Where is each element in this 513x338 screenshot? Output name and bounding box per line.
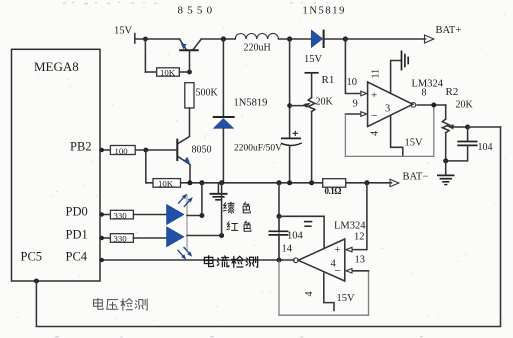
svg-text:20K: 20K (316, 97, 334, 108)
svg-text:BAT−: BAT− (403, 172, 429, 183)
output circle pin 14 (293, 258, 298, 263)
svg-text:15V: 15V (114, 26, 133, 37)
wire: pin14 node to cap and box corner (278, 183, 280, 217)
capacitor C2 104 (467, 127, 469, 141)
R1 wiper arrow from output node (290, 105, 305, 107)
svg-text:104: 104 (287, 231, 304, 242)
svg-text:R2: R2 (446, 86, 459, 98)
svg-text:PB2: PB2 (70, 140, 92, 154)
label 电压检测 (voltage detection) (93, 298, 147, 310)
svg-text:104: 104 (478, 142, 493, 153)
svg-text:15V: 15V (337, 293, 356, 304)
svg-text:9: 9 (353, 99, 358, 110)
svg-text:0.1Ω: 0.1Ω (325, 186, 342, 196)
scan speckles top edge (55, 2, 423, 337)
svg-text:1N5819: 1N5819 (303, 6, 346, 17)
svg-text:BAT+: BAT+ (436, 25, 462, 36)
svg-text:330: 330 (114, 210, 128, 220)
svg-text:10K: 10K (158, 179, 174, 189)
svg-text:R1: R1 (322, 74, 335, 86)
BAT- ground rail (146, 182, 323, 184)
wire: output to R2 (417, 104, 446, 106)
svg-text:8550: 8550 (178, 5, 217, 17)
svg-text:PD0: PD0 (66, 205, 88, 219)
rail junction nodes (187, 180, 192, 185)
pin 4 to 15V (391, 115, 403, 155)
LED D3 green (167, 204, 185, 224)
svg-text:PD1: PD1 (66, 228, 88, 242)
svg-text:2200uF/50V: 2200uF/50V (234, 143, 282, 153)
node above freewheeling diode (221, 36, 226, 41)
PC4 wire (current sense) (100, 259, 294, 261)
node on base wire (143, 148, 148, 153)
resistor 10K (base pull-up) (145, 71, 156, 73)
svg-text:20K: 20K (456, 100, 474, 111)
svg-text:12: 12 (354, 232, 365, 243)
svg-text:3: 3 (385, 104, 390, 115)
LED D3 emission arrows (178, 194, 193, 207)
node: BAT+ branch to op-amp pin10 (343, 36, 348, 41)
capacitor C1 2200uF/50V (289, 39, 291, 138)
op-amp U1D LM324 box (gray) (279, 216, 369, 315)
ground (below R2) (445, 161, 447, 175)
ground (op-amp1 pin 11, rotated) (401, 51, 403, 71)
node: base of 8550 (187, 70, 192, 75)
svg-text:4: 4 (331, 259, 337, 270)
svg-text:+: + (335, 244, 341, 256)
svg-text:10: 10 (347, 77, 358, 88)
node above ground (443, 158, 448, 163)
svg-text:14: 14 (282, 244, 293, 255)
label 绿色 (green) (223, 202, 250, 213)
wire: collector to inductor (201, 38, 235, 40)
pin 11 to ground (391, 61, 401, 94)
wire: inductor to diode (279, 38, 312, 40)
ground (center, below rail) (217, 183, 219, 193)
svg-text:15V: 15V (405, 138, 424, 149)
wire: PC5 to bottom rail (34, 279, 39, 284)
emitter arrow of 8550 (blue) (181, 44, 186, 49)
wire: 15V to transistor emitter (135, 38, 180, 40)
pin 12 wire from BAT- rail (352, 183, 367, 250)
resistor 10K (on rail) (153, 179, 181, 188)
resistor 500K (185, 83, 194, 108)
label 红色 (red) (227, 221, 251, 231)
svg-text:PC5: PC5 (21, 250, 43, 264)
wire: diode to BAT+ (324, 38, 426, 40)
output circle pin 8 (411, 103, 416, 108)
LED cathode line (gray) (186, 195, 188, 252)
svg-text:100: 100 (115, 146, 129, 156)
MEGA8 IC box U2 (12, 49, 101, 281)
LED D4 emission arrows (178, 247, 193, 260)
triangle op-amp 1 (368, 82, 413, 127)
15V supply terminal (top left) (134, 34, 136, 44)
svg-text:LM324: LM324 (412, 79, 444, 90)
resistor 330 (PD1) (100, 237, 110, 239)
svg-text:4: 4 (304, 292, 315, 297)
wire: junction down to 10K (144, 39, 146, 72)
svg-text:−: − (371, 109, 378, 123)
svg-text:13: 13 (355, 255, 366, 266)
inductor L1 220uH (235, 33, 278, 39)
svg-text:11: 11 (371, 69, 382, 79)
pin 11 mark (rotated) (304, 221, 312, 223)
LED D4 red (167, 227, 185, 247)
svg-text:LM324: LM324 (334, 221, 366, 232)
svg-text:8050: 8050 (192, 145, 212, 156)
svg-text:330: 330 (114, 234, 128, 244)
emitter arrow of 8050 (blue) (184, 157, 190, 162)
svg-text:15V: 15V (304, 54, 323, 65)
feedback loop wire (gray) output to pin9 (345, 105, 433, 156)
resistor 100 (PB2) (100, 149, 110, 151)
pin 10 wire from BAT+ (345, 39, 360, 94)
BAT- arrow (390, 179, 399, 186)
node: 15V rail junction (143, 37, 148, 42)
resistor 330 (PD0) (100, 214, 110, 216)
pin 13 wire (352, 270, 368, 272)
svg-text:PC4: PC4 (66, 250, 88, 264)
label 电流检测 (current detection) (204, 256, 257, 268)
shunt resistor 0.1 (on rail) (323, 179, 346, 188)
15V terminal op-amp2 (324, 273, 334, 310)
svg-text:8: 8 (422, 88, 427, 99)
svg-text:+: + (371, 90, 377, 102)
svg-text:4: 4 (370, 131, 381, 136)
svg-text:220uH: 220uH (244, 43, 271, 54)
svg-text:MEGA8: MEGA8 (34, 59, 79, 74)
node after inductor (287, 36, 292, 41)
wire: wiper to right edge (468, 126, 501, 128)
wire: base node down to ground rail (145, 150, 147, 183)
pin 9 wire (feedback input) (345, 113, 360, 115)
base wire from 100 ohm (135, 149, 177, 151)
capacitor C3 104 (278, 216, 280, 231)
BAT+ arrow (425, 35, 434, 43)
svg-text:500K: 500K (196, 88, 219, 99)
node: wiper junction (465, 125, 470, 130)
svg-text:10K: 10K (160, 68, 176, 78)
R2 wiper arrow (454, 126, 468, 128)
wire: 500K to 8050 collector (178, 108, 190, 144)
svg-text:1N5819: 1N5819 (234, 98, 268, 109)
